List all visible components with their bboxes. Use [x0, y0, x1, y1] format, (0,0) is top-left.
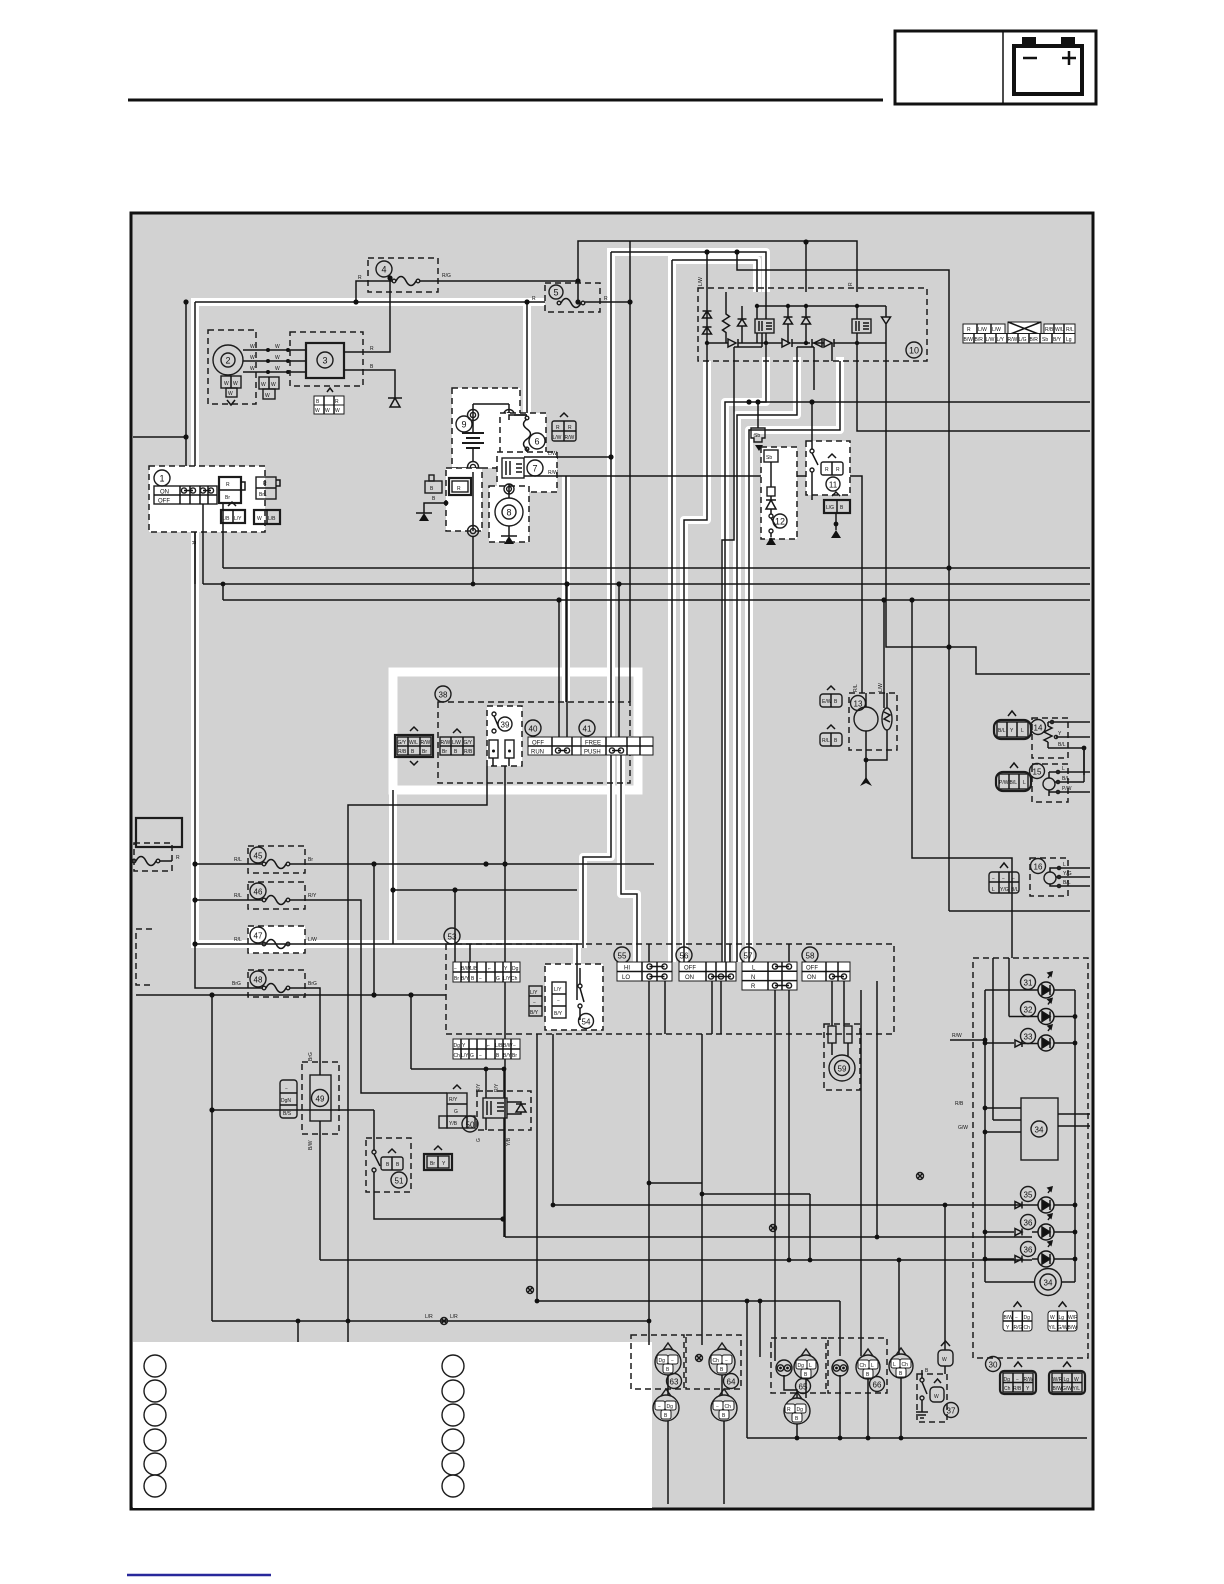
svg-text:Dg: Dg [454, 1043, 461, 1049]
header rule [128, 99, 883, 102]
svg-text:14: 14 [1034, 724, 1043, 733]
connector R/BrL (harness) [256, 477, 280, 499]
svg-text:OFF: OFF [806, 966, 818, 972]
wire: black centerline of left harness [195, 302, 577, 1000]
svg-text:34: 34 [1044, 1279, 1053, 1288]
svg-text:59: 59 [838, 1065, 847, 1074]
svg-text:OFF: OFF [684, 966, 696, 972]
CDI unit box 10 [698, 288, 927, 361]
svg-text:L/W: L/W [878, 683, 884, 692]
svg-text:L: L [893, 1362, 896, 1368]
svg-text:2: 2 [225, 356, 230, 366]
svg-text:12: 12 [775, 517, 785, 527]
meter lamp 16 [989, 858, 1090, 896]
handlebar switch box 53 [444, 928, 894, 1034]
fuse 45 [234, 846, 313, 873]
svg-text:L/W: L/W [452, 740, 461, 746]
connector grid G/Y W/L R/W (handlebar left) [395, 727, 433, 765]
horn 59 [824, 1024, 860, 1090]
main switch 1 [149, 466, 265, 532]
svg-text:R/L: R/L [1066, 327, 1074, 333]
wire white: from box 38 down to fuse 47 run [389, 790, 397, 944]
meter connector grids [1003, 1302, 1032, 1331]
svg-text:L/R: L/R [450, 1314, 458, 1320]
svg-text:45: 45 [254, 852, 263, 861]
svg-text:L/W: L/W [978, 327, 987, 333]
connector fuel sender [280, 1080, 297, 1118]
svg-text:56: 56 [680, 952, 689, 961]
wire: center bus black centerlines [566, 252, 840, 962]
svg-text:R: R [226, 482, 230, 488]
svg-text:B/Y: B/Y [554, 1011, 563, 1017]
svg-text:L/Y: L/Y [554, 987, 562, 993]
svg-text:W: W [275, 355, 280, 361]
svg-text:W: W [271, 382, 276, 388]
svg-text:10: 10 [909, 346, 919, 356]
wire: fuse 5 output up and over [585, 301, 630, 303]
left edge partial dashed box [136, 929, 152, 985]
svg-text:R/L: R/L [853, 684, 859, 692]
svg-text:64: 64 [727, 1378, 736, 1387]
wire: bottom common earth run [668, 1301, 901, 1504]
starter relay box [416, 468, 482, 537]
svg-text:Br: Br [454, 976, 459, 982]
tail light 65 lower [784, 1398, 810, 1424]
svg-text:R/Y: R/Y [308, 893, 317, 899]
wire: CDI output to meter y431 [857, 361, 1090, 431]
wire white: center bus A [583, 252, 611, 948]
svg-text:32: 32 [1024, 1006, 1033, 1015]
svg-text:PUSH: PUSH [584, 750, 601, 756]
wire: meter feed via y858 [912, 600, 1012, 958]
svg-text:B/L: B/L [1058, 742, 1066, 748]
svg-text:R: R [190, 541, 196, 545]
svg-text:W: W [257, 516, 262, 522]
sidestand switch 12 connector Sb [751, 428, 765, 451]
svg-text:L/R: L/R [425, 1314, 433, 1320]
svg-text:−: − [725, 1358, 728, 1364]
svg-text:Br: Br [308, 857, 313, 863]
meter lamp 15 [996, 748, 1090, 802]
svg-text:B/Y: B/Y [503, 1053, 512, 1059]
svg-text:B/W: B/W [1004, 1315, 1014, 1321]
wire: y1110 and switch 51 output [212, 1109, 374, 1111]
svg-text:Br: Br [422, 749, 427, 755]
speedometer unit 34 [1021, 1098, 1058, 1160]
wire: fuse6 top to harness [508, 484, 510, 494]
wire: x212 drop to bottom [211, 995, 213, 1321]
fuse 47 [234, 926, 317, 953]
bottom rail with series diodes [707, 342, 886, 344]
svg-text:DgN: DgN [281, 1098, 291, 1104]
svg-text:L: L [1063, 862, 1066, 868]
svg-text:E/W: E/W [822, 699, 832, 705]
tail light cluster 65 [771, 1338, 826, 1394]
svg-text:Br: Br [430, 1161, 435, 1167]
svg-text:W: W [224, 381, 229, 387]
svg-text:Y/B: Y/B [506, 1137, 512, 1146]
svg-text:B/L: B/L [1010, 780, 1018, 786]
svg-text:48: 48 [254, 976, 263, 985]
wire white: relay 7 branch down to engine stop area [562, 476, 570, 702]
svg-text:Dg: Dg [659, 1358, 666, 1364]
wire white: top jog into CDI box 10 [607, 252, 766, 292]
ground (rectifier) [388, 398, 402, 407]
meter assembly 30 [950, 958, 1090, 1358]
svg-text:16: 16 [1034, 863, 1043, 872]
left edge unlabeled box [136, 818, 182, 847]
svg-text:R/W: R/W [1008, 337, 1018, 343]
battery icon [1014, 46, 1082, 94]
svg-text:W: W [275, 344, 280, 350]
svg-text:R/B: R/B [464, 749, 473, 755]
svg-text:55: 55 [618, 952, 627, 961]
wire white: bottom run to handlebar switch 53 [191, 944, 577, 1000]
svg-text:⌐: ⌐ [488, 966, 491, 972]
fuse 46 [234, 882, 317, 909]
svg-text:6: 6 [534, 437, 539, 447]
svg-text:W: W [265, 393, 270, 399]
connector R R / L/W R/W [552, 413, 576, 441]
relay solid boxes [449, 478, 471, 495]
diode C [802, 306, 811, 343]
neutral switch 51 [366, 1110, 411, 1192]
svg-text:34: 34 [1035, 1126, 1044, 1135]
switch table ON/OFF [154, 486, 217, 504]
wire: feeds from harness into switch box 38 [559, 584, 619, 738]
splice B/Y [527, 1287, 534, 1294]
svg-text:R: R [836, 467, 840, 473]
svg-text:R: R [370, 346, 374, 352]
wire: bottom left links [212, 1320, 649, 1322]
svg-text:41: 41 [583, 725, 592, 734]
relay assembly 50 [462, 1091, 531, 1237]
internal verticals to bottom edge [707, 333, 886, 361]
svg-text:−: − [285, 1086, 288, 1092]
svg-text:−: − [671, 1358, 674, 1364]
svg-text:36: 36 [1024, 1246, 1033, 1255]
wire: lower bulb links [668, 1375, 806, 1398]
svg-text:FREE: FREE [585, 741, 601, 747]
legend circles column 1 [144, 1355, 166, 1497]
svg-text:36: 36 [1024, 1219, 1033, 1228]
svg-text:L/Y: L/Y [461, 1053, 469, 1059]
svg-text:BrG: BrG [308, 1052, 314, 1061]
svg-text:BrG: BrG [232, 981, 241, 987]
connector R/Y G Y/B (relay) [439, 1085, 475, 1128]
wire: switch box 38 outputs [348, 766, 505, 1321]
svg-text:B/Y: B/Y [1053, 337, 1062, 343]
wire: long feed y600 to right frame [223, 584, 1090, 600]
svg-text:L/W: L/W [308, 937, 317, 943]
footer blue rule [127, 1574, 271, 1576]
sidestand switch 12 [761, 447, 797, 545]
wire white: center bus B [672, 260, 757, 292]
wire: CDI input taps [706, 252, 708, 292]
wire to ground left [424, 503, 446, 513]
connector R/L B (headlight) [820, 725, 842, 746]
splice symbols [770, 1225, 777, 1232]
svg-text:W: W [315, 408, 320, 414]
svg-text:Y/G: Y/G [1063, 871, 1072, 877]
svg-text:ON: ON [685, 975, 694, 981]
svg-text:−: − [716, 1404, 719, 1410]
svg-text:R: R [263, 481, 267, 487]
main fuse 6 [500, 413, 558, 487]
svg-text:Y/G: Y/G [1000, 887, 1009, 893]
svg-text:Ch: Ch [454, 1053, 461, 1059]
svg-text:66: 66 [873, 1381, 882, 1390]
svg-text:Ch: Ch [511, 976, 518, 982]
svg-text:OFF: OFF [532, 741, 544, 747]
svg-text:B/W: B/W [503, 1043, 513, 1049]
connector R/Br (main switch) [219, 477, 245, 503]
svg-text:L/B: L/B [495, 1043, 503, 1049]
headlight switch 55 [614, 947, 672, 981]
svg-text:57: 57 [744, 952, 753, 961]
svg-text:W: W [1050, 1315, 1055, 1321]
connector W W / W below magneto [221, 376, 241, 405]
svg-text:Sb: Sb [754, 433, 760, 439]
wire: fuse 4 feed tap from main [356, 281, 578, 302]
white interior of dimmer switch 54 [545, 964, 603, 1030]
svg-text:R: R [556, 425, 560, 431]
svg-text:R: R [825, 467, 829, 473]
engine stop switch 40 [525, 720, 596, 756]
flasher light 63 lower [653, 1395, 679, 1421]
svg-text:B/L: B/L [998, 728, 1006, 734]
wire: CDI output long y402 [756, 401, 1090, 403]
svg-text:W: W [934, 1394, 939, 1400]
brake switch 37 [916, 1341, 959, 1422]
start switch 39 [487, 706, 522, 766]
svg-text:L/W: L/W [698, 277, 704, 286]
connector E/W B (headlight) [820, 686, 842, 707]
svg-text:51: 51 [395, 1177, 404, 1186]
svg-text:L: L [1062, 766, 1065, 772]
svg-text:Lg: Lg [1066, 337, 1072, 343]
svg-text:Y/B: Y/B [449, 1121, 458, 1127]
svg-text:7: 7 [532, 464, 537, 474]
svg-text:G/W: G/W [958, 1125, 968, 1131]
svg-text:Dg: Dg [797, 1407, 804, 1413]
svg-text:31: 31 [1024, 979, 1033, 988]
indicator LED 32 [1021, 1002, 1036, 1017]
svg-text:R: R [457, 486, 461, 492]
svg-text:47: 47 [254, 932, 263, 941]
wire: relay 7 L/W to center bus [524, 456, 611, 458]
rectifier / regulator 3 [290, 332, 363, 386]
svg-text:−: − [479, 976, 482, 982]
svg-text:R/B: R/B [1013, 1386, 1022, 1392]
svg-text:40: 40 [529, 725, 538, 734]
svg-text:Dg: Dg [798, 1363, 805, 1369]
svg-text:53: 53 [448, 933, 457, 942]
svg-text:B/L: B/L [1062, 776, 1070, 782]
wire: fuse 46 row to relay 50 [195, 900, 447, 1093]
connector grid below box 53 [453, 1039, 520, 1059]
flasher light right 64 [686, 1335, 741, 1389]
fuse 4 (signal fuse) [358, 258, 451, 292]
relay A [755, 319, 774, 333]
wire: rectifier output R up to fuse 4 line [344, 278, 390, 352]
wire main harness white highlight: ignition feed left vertical [191, 302, 199, 944]
svg-text:L: L [1023, 780, 1026, 786]
lights switch 56 [676, 947, 736, 981]
svg-text:Lg: Lg [1059, 1315, 1065, 1321]
svg-text:38: 38 [439, 691, 448, 700]
svg-text:L/B: L/B [470, 966, 478, 972]
svg-text:Ch: Ch [1004, 1386, 1011, 1392]
wire: headlight coil feed [883, 600, 885, 708]
svg-text:L/G: L/G [826, 505, 834, 511]
svg-text:R/L: R/L [234, 937, 242, 943]
wire: fuse 45 row [195, 863, 654, 865]
svg-text:W: W [250, 366, 255, 372]
svg-text:⌐: ⌐ [487, 1043, 490, 1049]
svg-text:B/W: B/W [964, 337, 974, 343]
clutch switch 11 [806, 399, 850, 495]
diode D [882, 306, 891, 343]
svg-text:Y/L: Y/L [1049, 1325, 1057, 1331]
wire: switch feeds from top edge [470, 944, 789, 962]
svg-text:LO: LO [622, 975, 630, 981]
svg-text:15: 15 [1033, 768, 1042, 777]
svg-text:R/Y: R/Y [449, 1097, 458, 1103]
start switch 41 [579, 720, 653, 756]
turn signal switch 57 [740, 947, 797, 990]
svg-text:W: W [250, 355, 255, 361]
svg-text:W: W [275, 366, 280, 372]
svg-text:W/R: W/R [1053, 1377, 1063, 1383]
svg-text:Dg: Dg [667, 1404, 674, 1410]
svg-text:G/Y: G/Y [464, 740, 473, 746]
engine stop switch box 38 [435, 686, 630, 783]
svg-text:B/Y: B/Y [530, 1010, 539, 1016]
battery 9 [452, 388, 520, 473]
wire: CDI output step to right edge [886, 361, 1090, 674]
meter harness connectors below box 30 [986, 1357, 1086, 1395]
svg-text:W: W [250, 344, 255, 350]
wire: relay 7 R/W to headlight 13 [524, 476, 862, 693]
connector L/B L/Y below switch [221, 502, 245, 523]
wire: switch outputs down [649, 981, 877, 1361]
tachometer 34 [1035, 1269, 1062, 1296]
main diagram gray panel [131, 213, 1093, 1509]
svg-text:R: R [358, 275, 362, 281]
connector W L/B (harness) [254, 510, 280, 524]
svg-text:R/B: R/B [1045, 327, 1054, 333]
svg-text:B/W: B/W [1068, 1325, 1078, 1331]
svg-text:R/W: R/W [952, 1033, 962, 1039]
meter lamp 14 [994, 711, 1090, 775]
svg-text:B/R: B/R [1030, 337, 1039, 343]
svg-text:L/Y: L/Y [530, 990, 538, 996]
svg-text:HI: HI [624, 966, 630, 972]
wire: x537 drop and y1301 [537, 1034, 840, 1301]
svg-text:39: 39 [501, 721, 510, 730]
wire: long feed y584 to right frame [203, 583, 1090, 585]
svg-text:B/W: B/W [308, 1140, 314, 1150]
wire: relay 50 feeds [411, 995, 504, 1098]
svg-text:L/W: L/W [553, 435, 562, 441]
svg-text:Br: Br [225, 495, 230, 501]
sidestand relay wires y1205 y1237 y1260 [553, 1034, 1032, 1205]
indicator LED 33 [1021, 1029, 1036, 1044]
svg-text:W: W [942, 1357, 947, 1363]
wire: long feed y568 to right frame [223, 567, 1090, 569]
svg-text:R/W: R/W [548, 470, 558, 476]
connector pair W W / W (harness side) [259, 377, 279, 399]
svg-text:Dg: Dg [512, 966, 519, 972]
white legend area bottom-left [133, 1342, 652, 1508]
relay B [852, 319, 871, 333]
wire white: engine-stop branch down [621, 755, 637, 962]
wire: bulb feeds [760, 1205, 945, 1357]
ground (starter relay) [419, 513, 429, 521]
svg-text:R: R [532, 296, 536, 302]
battery legend box top right [895, 31, 1096, 104]
svg-text:−: − [479, 1053, 482, 1059]
svg-text:−: − [454, 966, 457, 972]
svg-text:B/W: B/W [1053, 1386, 1063, 1392]
connector L/G B below clutch switch [824, 492, 850, 513]
svg-text:Ch: Ch [860, 1363, 867, 1369]
svg-text:L/Y: L/Y [997, 337, 1005, 343]
svg-text:8: 8 [506, 508, 511, 518]
svg-text:L/G: L/G [1019, 337, 1027, 343]
svg-text:R: R [967, 327, 971, 333]
svg-text:Ch: Ch [713, 1358, 720, 1364]
svg-text:L: L [871, 1363, 874, 1369]
svg-text:W: W [335, 408, 340, 414]
svg-text:R/B: R/B [955, 1101, 964, 1107]
svg-text:OFF: OFF [158, 499, 170, 505]
svg-text:R/W: R/W [1024, 1377, 1034, 1383]
wire white: CDI output bus D [749, 357, 840, 962]
wire: y995 run [136, 994, 446, 996]
indicator LED 36a [1021, 1215, 1036, 1230]
wire: battery negative to frame [472, 536, 474, 584]
svg-text:−: − [557, 998, 560, 1004]
svg-text:Lg: Lg [1064, 1377, 1070, 1383]
svg-text:R/W: R/W [421, 740, 431, 746]
svg-text:N: N [751, 975, 755, 981]
svg-text:−: − [992, 876, 995, 882]
wire white: CDI output bus F [737, 357, 797, 962]
svg-text:G: G [496, 976, 500, 982]
wire: rectifier output B to ground [344, 370, 395, 398]
connector grid R/W L/W G/Y (harness side) [440, 729, 474, 755]
svg-text:R/L: R/L [234, 893, 242, 899]
svg-text:G/W: G/W [1058, 1325, 1068, 1331]
svg-text:L/W: L/W [548, 451, 557, 457]
svg-text:W: W [325, 408, 330, 414]
AC magneto 2 [208, 330, 256, 405]
wire white: branch down to main fuse 6 [523, 298, 531, 418]
svg-text:L: L [809, 1363, 812, 1369]
svg-text:49: 49 [316, 1095, 325, 1104]
svg-text:58: 58 [806, 952, 815, 961]
svg-text:54: 54 [582, 1018, 591, 1027]
wire: clutch switch to ground [812, 495, 836, 530]
svg-text:RUN: RUN [531, 750, 544, 756]
wire: CDI outputs down [684, 361, 707, 962]
svg-text:R/G: R/G [1014, 1325, 1023, 1331]
svg-text:33: 33 [1024, 1033, 1033, 1042]
wire white: frame around switch box 38 [393, 672, 638, 790]
svg-text:Sb: Sb [766, 455, 772, 461]
